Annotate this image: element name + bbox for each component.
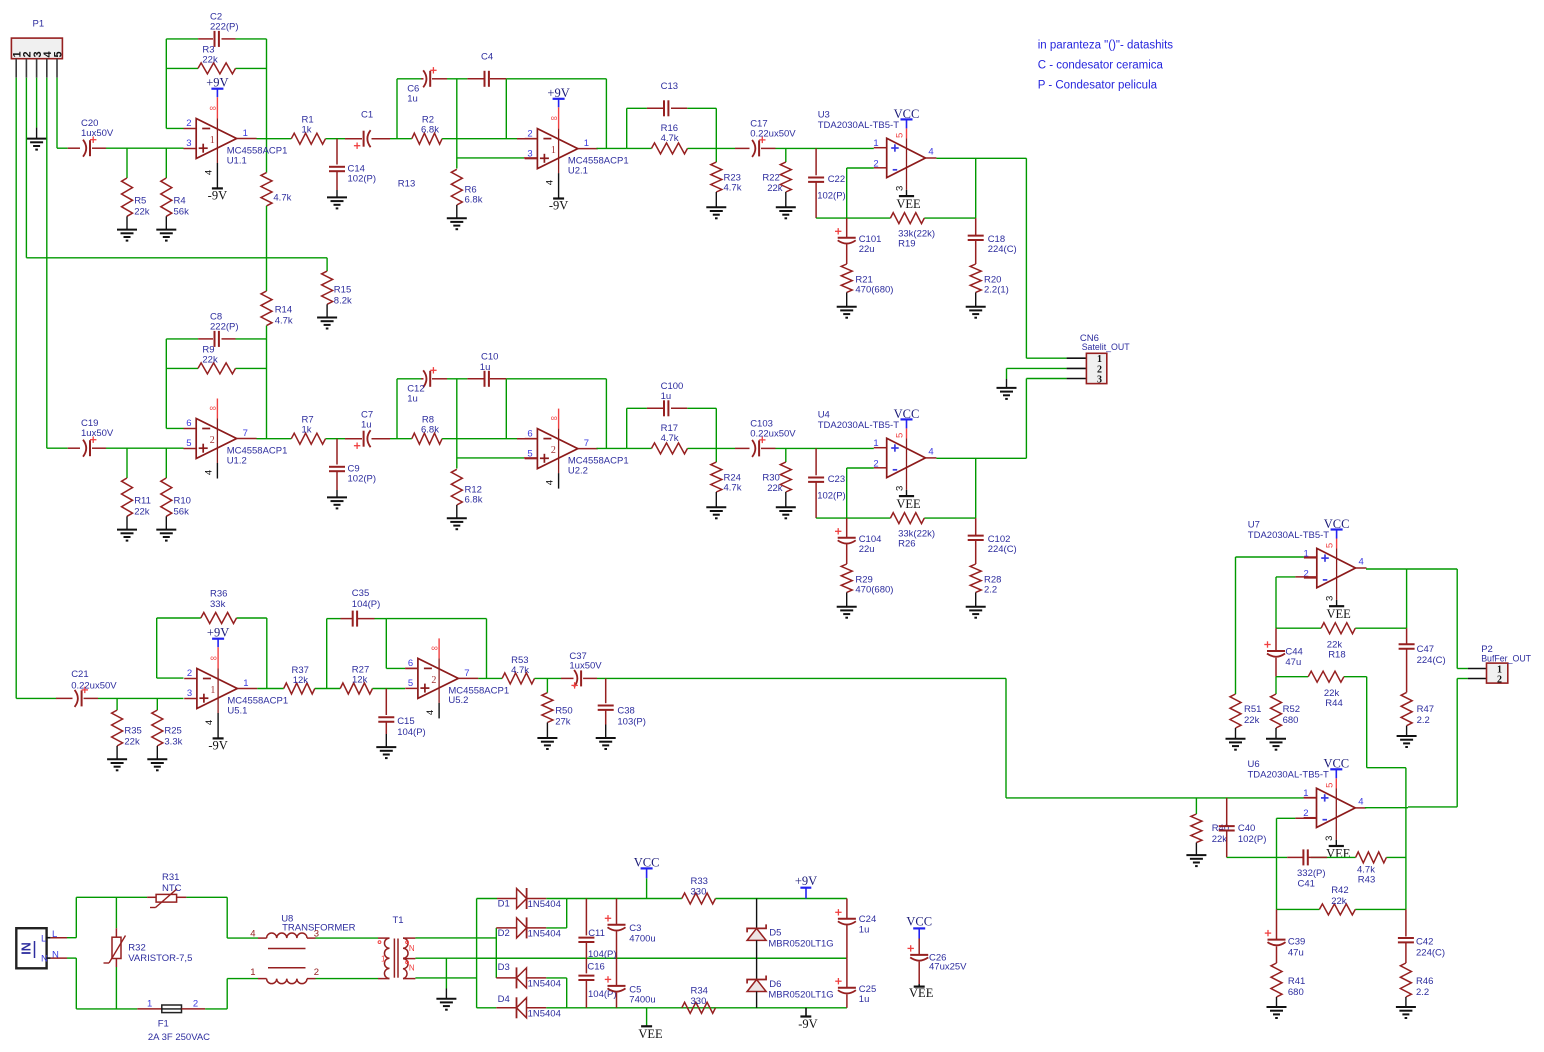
svg-text:2: 2 <box>186 118 191 129</box>
svg-text:5: 5 <box>52 51 64 57</box>
svg-text:VEE: VEE <box>1326 607 1351 621</box>
wire F1 to transformer <box>205 1008 227 1010</box>
svg-text:4.7k: 4.7k <box>661 433 679 444</box>
svg-text:1N5404: 1N5404 <box>528 929 561 940</box>
resistor R15 8.2k <box>326 258 328 271</box>
svg-text:3: 3 <box>894 486 905 491</box>
svg-text:∞: ∞ <box>209 103 216 114</box>
wire U3 output vertical to rail <box>975 158 977 218</box>
svg-text:2: 2 <box>314 967 319 978</box>
svg-text:-9V: -9V <box>798 1017 817 1031</box>
svg-text:D4: D4 <box>498 994 510 1005</box>
svg-text:4: 4 <box>928 147 933 158</box>
ground under R41 <box>1267 1006 1287 1008</box>
svg-text:1u: 1u <box>407 394 418 405</box>
ground under C14 <box>327 196 347 198</box>
capacitor C12 1u <box>421 378 424 380</box>
feedback loop wires C8/R9 <box>165 339 167 429</box>
svg-text:1: 1 <box>1303 788 1308 799</box>
svg-text:VEE: VEE <box>1326 847 1351 861</box>
svg-text:104(P): 104(P) <box>397 727 426 738</box>
svg-text:22k: 22k <box>1331 896 1347 907</box>
svg-text:R36: R36 <box>210 589 227 600</box>
svg-text:C23: C23 <box>828 474 845 485</box>
capacitor C21 0.22ux50V (sub input) <box>56 697 73 699</box>
wire U7 output down to C47 <box>1406 569 1408 628</box>
wire node line to R14/R15 <box>26 257 327 259</box>
feedback loop C35 wires <box>326 619 328 689</box>
diode D6 MBR0520LT1G <box>756 958 758 979</box>
svg-text:R30: R30 <box>762 473 779 484</box>
svg-text:T1: T1 <box>393 915 404 926</box>
capacitor C103 0.22ux50V <box>735 447 750 449</box>
svg-text:680: 680 <box>1283 715 1299 726</box>
wire N down to bottom rail <box>75 958 77 1009</box>
svg-text:104(P): 104(P) <box>352 599 381 610</box>
VCC rail wire <box>567 898 682 900</box>
svg-text:TDA2030AL-TB5-T: TDA2030AL-TB5-T <box>1248 770 1330 781</box>
feedback rail wire <box>816 217 890 219</box>
wire R44 row <box>1276 676 1308 678</box>
svg-text:C13: C13 <box>661 81 678 92</box>
ground under R20 <box>966 306 986 308</box>
svg-text:4: 4 <box>203 470 214 475</box>
svg-text:C41: C41 <box>1298 879 1315 890</box>
capacitor C18 224(C) <box>975 218 977 236</box>
svg-text:2A 3F 250VAC: 2A 3F 250VAC <box>148 1032 210 1043</box>
resistor R35 22k <box>116 698 118 710</box>
svg-text:-9V: -9V <box>549 199 568 213</box>
capacitor C37 1ux50V <box>561 677 574 679</box>
wire U3 output <box>936 157 1026 159</box>
resistor R9 22k <box>198 363 236 374</box>
svg-text:1: 1 <box>147 999 152 1010</box>
svg-text:2: 2 <box>527 128 532 139</box>
wire L up to top rail <box>75 897 77 937</box>
svg-text:5: 5 <box>186 438 191 449</box>
resistor R47 2.2 <box>1401 692 1412 725</box>
svg-text:N: N <box>409 964 415 973</box>
svg-text:L: L <box>41 933 46 944</box>
resistor R43 4.7k <box>1356 852 1387 863</box>
svg-text:22k: 22k <box>202 355 218 366</box>
svg-text:1: 1 <box>243 128 248 139</box>
resistor R21 470(680) <box>841 264 852 292</box>
wire T1 secondary bottom to bridge <box>415 977 476 979</box>
svg-text:1: 1 <box>873 438 878 449</box>
wire U1.2 output row <box>257 438 292 440</box>
svg-text:0.22ux50V: 0.22ux50V <box>71 681 117 692</box>
thermistor R31 NTC <box>147 896 156 898</box>
resistor R34 330 <box>682 1002 716 1013</box>
svg-text:N: N <box>52 950 59 961</box>
svg-text:C47: C47 <box>1417 644 1434 655</box>
ground under R28 <box>966 606 986 608</box>
svg-text:1N5404: 1N5404 <box>528 979 561 990</box>
resistor R27 12k <box>340 683 372 694</box>
svg-text:R47: R47 <box>1417 704 1434 715</box>
capacitor C38 103(P) <box>605 678 607 703</box>
ground under CN6 pin2 <box>997 387 1017 389</box>
resistor R17 4.7k <box>627 447 652 449</box>
svg-text:C35: C35 <box>352 588 369 599</box>
wire 4.7k to R14 <box>266 206 268 291</box>
resistor R8 6.8k <box>412 433 442 444</box>
connector P2 BufFer_OUT <box>1487 663 1508 683</box>
svg-text:TDA2030AL-TB5-T: TDA2030AL-TB5-T <box>818 120 900 131</box>
resistor R18 22k <box>1321 623 1355 634</box>
resistor R3 22k <box>198 63 236 74</box>
capacitor C1 <box>345 138 362 140</box>
capacitor C39 47u <box>1276 909 1278 939</box>
resistor R10 56k <box>165 448 167 478</box>
svg-text:VARISTOR-7,5: VARISTOR-7,5 <box>128 953 192 964</box>
wire sub input row <box>98 697 184 699</box>
mid rail wire <box>477 957 587 959</box>
resistor R42 22k <box>1319 904 1355 915</box>
svg-text:BufFer_OUT: BufFer_OUT <box>1481 654 1531 664</box>
wire R14 down to U1.2 feedback loop <box>266 326 268 339</box>
resistor R44 22k <box>1308 671 1344 682</box>
svg-text:R5: R5 <box>134 196 146 207</box>
wire P2 pin2 to U6 output <box>1456 679 1458 807</box>
ground under C9 <box>327 496 347 498</box>
svg-text:R33: R33 <box>691 876 708 887</box>
svg-text:R31: R31 <box>162 872 179 883</box>
svg-text:3: 3 <box>894 186 905 191</box>
wire U2.1 output <box>597 147 627 149</box>
wire U3 output to CN6 pin1 <box>1025 158 1027 358</box>
svg-text:5: 5 <box>408 678 413 689</box>
svg-text:4: 4 <box>250 929 255 940</box>
svg-text:D3: D3 <box>498 962 510 973</box>
connector P1 <box>11 38 62 59</box>
resistor R7 1k <box>291 433 325 444</box>
svg-text:R35: R35 <box>124 725 141 736</box>
svg-text:R4: R4 <box>174 196 186 207</box>
svg-text:6.8k: 6.8k <box>465 495 483 506</box>
capacitor C19 1ux50V (input) <box>68 447 80 449</box>
svg-text:L: L <box>52 929 57 940</box>
svg-text:6: 6 <box>527 428 532 439</box>
svg-text:VEE: VEE <box>638 1027 663 1041</box>
svg-text:R11: R11 <box>134 496 151 507</box>
svg-text:Satelit_OUT: Satelit_OUT <box>1082 342 1131 352</box>
capacitor C2 222(P) <box>198 38 213 40</box>
svg-text:U4: U4 <box>818 409 830 420</box>
diode D5 MBR0520LT1G <box>756 899 758 929</box>
svg-text:8.2k: 8.2k <box>334 296 352 307</box>
wire T1 secondary top to bridge <box>415 937 496 939</box>
svg-text:5: 5 <box>895 433 906 438</box>
wire sub signal down to U6 +input <box>1005 678 1007 798</box>
svg-text:22u: 22u <box>859 244 875 255</box>
svg-text:224(C): 224(C) <box>988 544 1017 555</box>
svg-text:C10: C10 <box>481 352 498 363</box>
feedback loop C100 wires <box>626 408 628 448</box>
capacitor C17 0.22ux50V <box>735 147 750 149</box>
svg-text:C38: C38 <box>617 705 634 716</box>
svg-text:1u: 1u <box>480 362 491 373</box>
wire U6 -input <box>1277 817 1296 819</box>
svg-text:U2.2: U2.2 <box>568 465 588 476</box>
svg-text:∞: ∞ <box>209 403 216 414</box>
capacitor C40 102(P) <box>1226 798 1228 826</box>
capacitor C25 1u <box>846 958 848 988</box>
svg-text:R41: R41 <box>1288 976 1305 987</box>
ground under R15 <box>317 317 337 319</box>
svg-text:1u: 1u <box>661 391 672 402</box>
svg-text:4.7k: 4.7k <box>511 665 529 676</box>
wire +input branch U2.1 <box>457 157 524 159</box>
svg-text:2: 2 <box>210 435 215 446</box>
capacitor C15 104(P) <box>385 689 387 716</box>
svg-text:3.3k: 3.3k <box>164 736 182 747</box>
resistor R36 33k <box>201 613 237 624</box>
ground under R29 <box>837 606 857 608</box>
capacitor C42 224(C) <box>1405 909 1407 936</box>
svg-text:4700u: 4700u <box>629 934 655 945</box>
connector IN (mains input) <box>16 928 46 968</box>
svg-text:R50: R50 <box>555 705 572 716</box>
svg-text:MBR0520LT1G: MBR0520LT1G <box>768 939 833 950</box>
svg-text:47ux25V: 47ux25V <box>929 962 967 973</box>
svg-text:∞: ∞ <box>431 643 438 654</box>
ground under R46 <box>1396 1006 1416 1008</box>
svg-text:C22: C22 <box>828 174 845 185</box>
svg-text:4: 4 <box>203 170 214 175</box>
svg-text:103(P): 103(P) <box>617 716 646 727</box>
resistor R11 22k <box>126 448 128 478</box>
svg-text:VEE: VEE <box>909 986 934 1000</box>
svg-text:12k: 12k <box>293 675 309 686</box>
svg-text:2.2: 2.2 <box>1416 987 1429 998</box>
svg-text:R51: R51 <box>1244 704 1261 715</box>
wire R42 rail <box>1277 908 1320 910</box>
wire input row <box>106 147 184 149</box>
capacitor C13 <box>647 107 663 109</box>
svg-text:27k: 27k <box>555 716 571 727</box>
wire U2.2 output <box>597 447 627 449</box>
power flag VEE at rail <box>646 1008 648 1025</box>
wire to power amp input <box>776 447 874 449</box>
power flag VCC at rail <box>646 878 648 898</box>
capacitor C44 47u <box>1275 628 1277 651</box>
svg-text:F1: F1 <box>158 1018 169 1029</box>
ground under R12 <box>447 517 467 519</box>
svg-text:∞: ∞ <box>551 413 558 424</box>
svg-text:0.22ux50V: 0.22ux50V <box>750 128 796 139</box>
svg-text:1ux50V: 1ux50V <box>569 661 602 672</box>
svg-text:5: 5 <box>1324 783 1335 788</box>
svg-text:U1.1: U1.1 <box>227 155 247 166</box>
wire IN L pin <box>47 937 51 939</box>
svg-text:22u: 22u <box>859 544 875 555</box>
resistor R5 22k <box>126 148 128 178</box>
resistor R24 4.7k <box>715 448 717 462</box>
svg-text:2: 2 <box>1497 675 1502 686</box>
svg-text:U2.1: U2.1 <box>568 165 588 176</box>
svg-text:3: 3 <box>187 688 192 699</box>
feedback rail wire <box>816 517 890 519</box>
capacitor C3 4700u <box>616 899 618 925</box>
svg-text:4: 4 <box>425 710 436 715</box>
wire P1 pin2 to node line <box>25 78 27 258</box>
capacitor C6 1u <box>421 78 424 80</box>
svg-text:3: 3 <box>186 138 191 149</box>
svg-text:2: 2 <box>187 668 192 679</box>
wire to power amp input <box>776 147 874 149</box>
op-amp U5.2 MC4558ACP1 <box>438 638 440 658</box>
ground under R52 <box>1266 738 1286 740</box>
svg-text:56k: 56k <box>174 507 190 518</box>
svg-text:4.7k: 4.7k <box>724 483 742 494</box>
svg-text:2: 2 <box>551 445 556 456</box>
svg-text:102(P): 102(P) <box>817 490 846 501</box>
wire IN N pin <box>47 957 51 959</box>
svg-text:1k: 1k <box>302 424 312 435</box>
svg-text:22k: 22k <box>1212 834 1228 845</box>
resistor R14 4.7k <box>261 291 272 326</box>
svg-text:R22: R22 <box>762 173 779 184</box>
connector CN6 Satelit_OUT <box>1086 353 1106 383</box>
resistor R25 3.3k <box>156 698 158 710</box>
svg-text:1k: 1k <box>302 124 312 135</box>
ground under P1 pin3 <box>27 138 47 140</box>
wire U3 -input <box>847 167 874 169</box>
capacitor C47 224(C) <box>1406 628 1408 644</box>
varistor R32 VARISTOR-7,5 <box>115 897 117 928</box>
svg-text:C42: C42 <box>1416 937 1433 948</box>
resistor R37 12k <box>284 683 315 694</box>
ground under R40 <box>1186 854 1206 856</box>
svg-text:47u: 47u <box>1288 948 1304 959</box>
svg-text:VEE: VEE <box>896 197 921 211</box>
capacitor C41 332(P) <box>1287 856 1303 858</box>
svg-text:in paranteza "()"- datashits: in paranteza "()"- datashits <box>1038 39 1174 51</box>
svg-text:4.7k: 4.7k <box>724 183 742 194</box>
svg-text:R25: R25 <box>164 725 181 736</box>
resistor R51 22k <box>1230 694 1241 728</box>
svg-text:NTC: NTC <box>162 883 182 894</box>
svg-text:-9V: -9V <box>208 189 227 203</box>
capacitor C35 104(P) <box>341 618 353 620</box>
svg-text:56k: 56k <box>174 207 190 218</box>
svg-text:1ux50V: 1ux50V <box>81 128 114 139</box>
svg-text:12k: 12k <box>352 675 368 686</box>
svg-text:4: 4 <box>204 720 215 725</box>
svg-text:N: N <box>409 944 415 953</box>
svg-text:U1.2: U1.2 <box>227 455 247 466</box>
wire U6 output <box>1365 807 1408 809</box>
svg-text:R26: R26 <box>898 539 915 550</box>
svg-text:1: 1 <box>584 138 589 149</box>
svg-text:D6: D6 <box>769 979 781 990</box>
svg-text:5: 5 <box>527 448 532 459</box>
power flag -9V <box>805 1008 807 1017</box>
svg-text:330: 330 <box>691 887 707 898</box>
resistor R26 33k(22k) <box>890 513 924 524</box>
capacitor C22 102(P) <box>815 148 817 175</box>
svg-text:6: 6 <box>408 658 413 669</box>
svg-text:R42: R42 <box>1331 885 1348 896</box>
ground under C38 <box>596 737 616 739</box>
svg-text:4: 4 <box>545 480 556 485</box>
svg-text:R14: R14 <box>275 305 292 316</box>
svg-text:1: 1 <box>551 145 556 156</box>
svg-text:N: N <box>41 954 48 965</box>
wire P1 pin3 to ground <box>36 78 38 128</box>
wire T1 mid tap <box>415 957 847 959</box>
svg-text:C11: C11 <box>588 928 605 939</box>
svg-text:1: 1 <box>873 138 878 149</box>
capacitor C23 102(P) <box>815 448 817 475</box>
svg-text:+9V: +9V <box>795 874 817 888</box>
svg-text:1u: 1u <box>859 994 870 1005</box>
svg-text:102(P): 102(P) <box>348 474 377 485</box>
capacitor C102 224(C) <box>975 518 977 536</box>
svg-text:IN: IN <box>20 942 34 955</box>
svg-text:2: 2 <box>1304 568 1309 579</box>
svg-text:U5.2: U5.2 <box>448 695 468 706</box>
svg-text:7400u: 7400u <box>629 995 655 1006</box>
resistor R20 2.2(1) <box>970 264 981 292</box>
svg-text:U3: U3 <box>818 109 830 120</box>
svg-text:102(P): 102(P) <box>348 174 377 185</box>
svg-text:102(P): 102(P) <box>1238 834 1267 845</box>
svg-text:1: 1 <box>210 135 215 146</box>
svg-text:3: 3 <box>1324 596 1335 601</box>
svg-text:6.8k: 6.8k <box>421 124 439 135</box>
svg-text:22k: 22k <box>767 183 783 194</box>
svg-text:6.8k: 6.8k <box>421 424 439 435</box>
svg-text:P1: P1 <box>33 19 45 30</box>
svg-text:TDA2030AL-TB5-T: TDA2030AL-TB5-T <box>1248 530 1330 541</box>
svg-text:R32: R32 <box>128 942 145 953</box>
resistor R50 27k <box>546 678 548 692</box>
resistor R16 4.7k <box>627 147 652 149</box>
svg-text:22k: 22k <box>134 207 150 218</box>
wire U7 +input to R51 <box>1235 557 1237 691</box>
svg-text:-9V: -9V <box>208 739 227 753</box>
svg-text:R18: R18 <box>1328 650 1345 661</box>
capacitor C101 22u <box>846 218 848 238</box>
diode D2 1N5404 <box>496 927 516 929</box>
svg-text:∞: ∞ <box>210 653 217 664</box>
svg-text:22k: 22k <box>134 507 150 518</box>
svg-text:VEE: VEE <box>896 497 921 511</box>
fuse F1 2A <box>137 1008 162 1010</box>
svg-text:5: 5 <box>895 133 906 138</box>
feedback loop C13 wires <box>626 108 628 148</box>
wire U5.2 output <box>478 677 502 679</box>
diode D3 1N5404 <box>496 977 516 979</box>
svg-text:C39: C39 <box>1288 937 1305 948</box>
wire U5.1 output row <box>257 688 283 690</box>
svg-text:D2: D2 <box>498 928 510 939</box>
svg-text:1: 1 <box>250 967 255 978</box>
capacitor C11 104(P) <box>585 899 587 936</box>
resistor R33 330 <box>682 893 716 904</box>
svg-text:4: 4 <box>928 446 933 457</box>
feedback rail R18 <box>1276 627 1321 629</box>
resistor R28 2.2 <box>970 564 981 592</box>
svg-text:R19: R19 <box>898 239 915 250</box>
svg-text:2: 2 <box>873 458 878 469</box>
wire P1 pin4 to C19 <box>46 78 48 449</box>
capacitor C20 1ux50V (input) <box>68 147 80 149</box>
svg-text:∞: ∞ <box>551 113 558 124</box>
